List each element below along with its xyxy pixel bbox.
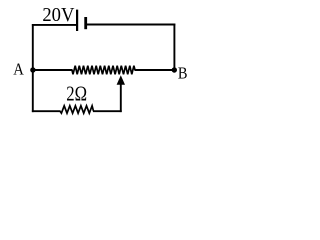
- node A junction dot: [30, 67, 35, 72]
- node B junction dot: [172, 67, 177, 72]
- svg-text:2Ω: 2Ω: [66, 82, 87, 106]
- svg-text:B: B: [178, 64, 188, 83]
- wire: middle horizontal lead from potentiometer to node B: [135, 69, 175, 71]
- wire: left vertical from top corner through node A to bottom corner: [32, 24, 34, 112]
- svg-text:A: A: [13, 60, 24, 79]
- battery 20V: long (positive) plate: [76, 10, 78, 31]
- wire: middle horizontal lead from node A to potentiometer: [33, 69, 73, 71]
- resistor R 2-ohm (zigzag): [60, 106, 94, 113]
- svg-text:20V: 20V: [42, 4, 75, 26]
- wire: bottom-right segment from resistor to wiper corner: [93, 110, 122, 112]
- resistor: potentiometer track between A and B (zigzag): [72, 66, 135, 75]
- wire: top-left segment from left corner to battery positive plate: [32, 24, 77, 26]
- battery 20V: short (negative) plate: [84, 17, 87, 29]
- wire: bottom-left segment from bottom corner to 2-ohm resistor: [32, 110, 61, 112]
- wire: wiper vertical shaft rising from bottom wire: [120, 83, 122, 112]
- wiper arrowhead pointing up at potentiometer: [117, 75, 125, 85]
- wire: top-right segment from battery negative plate to right corner: [86, 24, 176, 26]
- wire: right vertical from top corner down to node B: [173, 24, 175, 70]
